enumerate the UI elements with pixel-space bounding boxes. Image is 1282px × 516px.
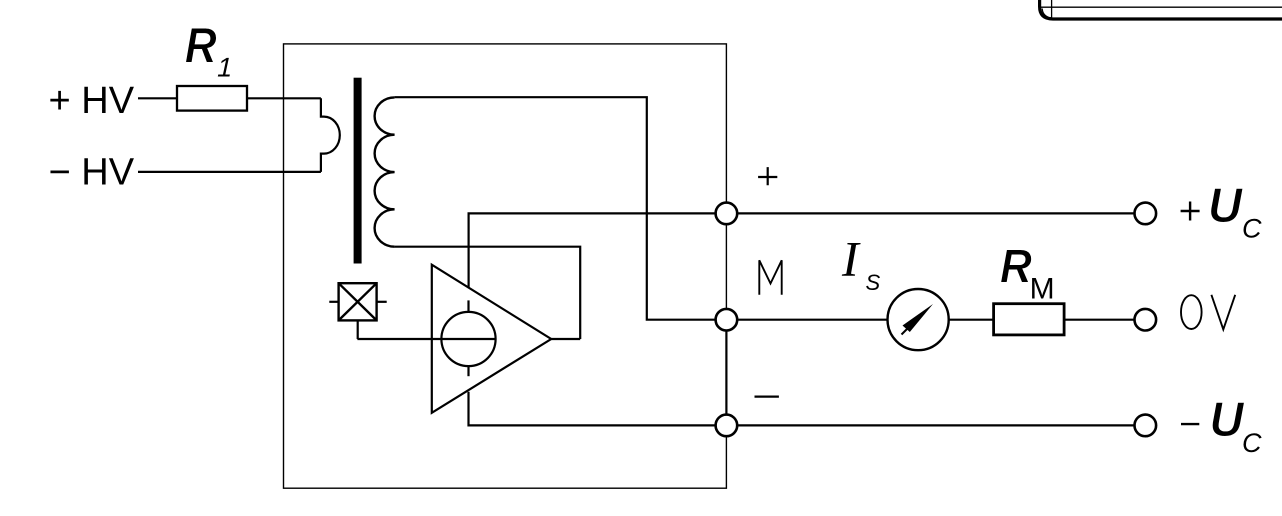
node - label	[755, 396, 779, 398]
wire meter to RM	[949, 319, 994, 321]
terminal circle 0V	[1135, 309, 1157, 331]
meter needle tail	[902, 329, 908, 335]
terminal circle -Uc	[1135, 415, 1157, 437]
wire +HV input	[138, 97, 177, 99]
wire control input through circle (horizontal diameter)	[357, 338, 495, 340]
enclosure frame corner (top right, partial) thick rounded border	[1040, 0, 1282, 19]
wire sensor to amplifier input	[357, 320, 359, 339]
wire amplifier apex to feedback	[551, 338, 580, 340]
module box outline	[284, 44, 727, 488]
terminal circle + on module edge	[716, 203, 738, 225]
sensor left stub	[329, 301, 338, 303]
wire R1 to transformer primary	[247, 97, 321, 99]
svg-text:R: R	[1000, 240, 1032, 293]
label -Uc : minus sign	[1181, 423, 1199, 425]
sensor right stub	[377, 301, 387, 303]
wire secondary top to node M (down at x=646.8)	[395, 97, 727, 320]
meter Is circle	[888, 289, 949, 350]
sensor crossed box	[339, 283, 377, 320]
svg-text:I: I	[841, 230, 861, 286]
wire + output from current source top to +Uc terminal	[469, 213, 1135, 287]
label 0V : V	[1211, 295, 1235, 330]
enclosure frame inner thin vertical line	[1051, 0, 1053, 18]
meter needle	[903, 304, 934, 332]
transformer core bar	[354, 78, 362, 264]
wire secondary bottom to amplifier output	[395, 247, 581, 339]
node M label	[759, 260, 781, 294]
enclosure frame inner thin corner arc	[1042, 9, 1051, 18]
label +Uc : plus sign	[1181, 202, 1200, 221]
svg-text:R: R	[185, 18, 217, 74]
current source top tick	[467, 300, 469, 312]
terminal circle - on module edge	[716, 415, 738, 437]
transformer primary winding	[321, 98, 340, 172]
node + label	[758, 167, 777, 185]
svg-text:+ HV: + HV	[49, 80, 135, 122]
sensor crossed box diagonal 2	[339, 283, 377, 320]
terminal circle +Uc	[1135, 203, 1157, 225]
enclosure frame inner thin horizontal line	[1041, 6, 1282, 8]
svg-text:C: C	[1242, 214, 1262, 244]
wire - output from current source bottom to -Uc terminal	[469, 392, 1135, 426]
wire RM to 0V terminal	[1064, 319, 1134, 321]
svg-text:U: U	[1210, 393, 1246, 447]
svg-text:M: M	[1030, 272, 1055, 305]
transformer secondary winding	[375, 97, 395, 246]
terminal circle M on module edge	[716, 309, 738, 331]
label 0V : zero	[1181, 295, 1202, 329]
resistor R1	[177, 86, 247, 111]
svg-text:− HV: − HV	[49, 151, 135, 193]
wire node M to node minus along module edge	[725, 320, 727, 426]
resistor RM	[994, 304, 1065, 335]
svg-text:U: U	[1208, 179, 1244, 233]
svg-text:C: C	[1242, 428, 1262, 458]
sensor crossed box diagonal 1	[339, 283, 377, 320]
wire -HV input	[138, 171, 321, 173]
wire node M to meter	[737, 319, 888, 321]
current source bottom tick	[467, 366, 469, 377]
svg-text:S: S	[866, 270, 881, 295]
current source circle inside amplifier	[441, 312, 495, 366]
amplifier triangle U1	[432, 265, 551, 413]
